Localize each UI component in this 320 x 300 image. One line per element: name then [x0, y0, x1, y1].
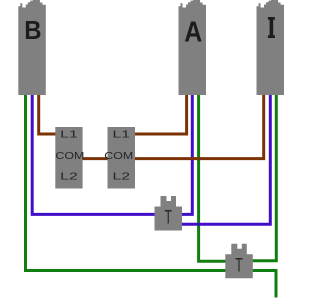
- svg-text:L2: L2: [113, 171, 131, 182]
- wire: brown link switch S1 COM to switch S2 COM: [82, 157, 107, 160]
- wire: cable A green down to terminal T2 left: [199, 94, 226, 261]
- wire: cable A purple down to terminal T1 right: [182, 94, 193, 214]
- svg-text:T: T: [235, 255, 243, 276]
- wire: green stub from terminal T2 right going down off bottom: [253, 271, 276, 298]
- cable B: [18, 0, 46, 95]
- wire: cable I brown down and across to switch S2 COM: [135, 94, 264, 159]
- wire: cable B brown down to switch S1 L1: [39, 94, 56, 134]
- switch S1: [55, 127, 84, 189]
- wire: cable B green down and across to terminal T2 left: [26, 94, 226, 271]
- wire: cable B purple down and across to terminal T1 left: [32, 94, 155, 214]
- svg-text:B: B: [24, 15, 41, 45]
- svg-text:COM: COM: [104, 151, 133, 162]
- svg-text:L1: L1: [113, 130, 131, 141]
- wire: cable A brown down to switch S2 L1: [135, 94, 187, 134]
- switch S2: [104, 127, 135, 189]
- cable A: [179, 0, 207, 95]
- wire: cable I purple down and across to terminal T1 right: [182, 94, 271, 224]
- cable I: [257, 0, 285, 95]
- svg-text:L1: L1: [60, 130, 78, 141]
- svg-text:A: A: [184, 17, 202, 49]
- terminal T2: [225, 244, 253, 279]
- svg-text:T: T: [164, 208, 172, 229]
- svg-text:COM: COM: [55, 151, 84, 162]
- svg-text:L2: L2: [60, 171, 78, 182]
- wire: cable I green down to terminal T2 right: [253, 94, 277, 261]
- terminal T1: [155, 196, 183, 231]
